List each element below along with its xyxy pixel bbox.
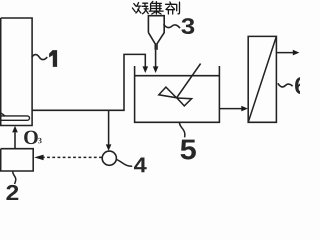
wire: pipe tank 5 to membrane 6 [219,108,241,110]
mixing tank 5 (open top) [135,66,220,122]
arrowhead into box 2 (dashed line) [34,155,43,161]
label 1 [49,50,57,67]
coagulant hopper 3 [148,16,164,50]
kanji 集 (coagulant text char 2) [149,1,163,14]
arrowhead into membrane 6 [241,106,248,112]
arrowhead outlet [293,50,300,56]
label 4 [134,158,147,173]
label 5 [181,140,196,160]
leader tilde for label 3 [164,24,180,28]
sparger plate inside tank 1 [0,116,30,120]
wire: pipe tank1 to mixing tank [32,54,145,110]
leader tilde for label 1 [32,55,47,60]
ozone generator box 2 [1,149,34,171]
label 6 [295,77,307,94]
leader squiggle for label 2 [13,171,16,184]
label 3 [181,18,194,34]
stirrer blade right [177,98,192,106]
liquid level line in tank 5 [135,75,220,77]
wire: dashed control line to box 2 [43,156,102,158]
wire: branch down to pump 4 [108,110,110,145]
label 2 [6,185,18,200]
wire: coagulant feed line into tank 5 [155,50,157,67]
stirrer shaft [177,64,201,98]
wire: treated water outlet [276,52,293,54]
arrowhead up into tank 1 [12,126,18,133]
stirrer blade left [159,87,177,98]
membrane diagonal [248,36,276,122]
kanji 剤 (coagulant text char 3) [166,2,180,14]
sparger left diagonal [0,112,5,116]
arrowhead at pump [106,144,112,150]
O3 label [24,131,38,144]
leader tilde for label 6 [278,83,293,87]
arrowhead coagulant into tank 5 [153,66,159,73]
pump / valve circle 4 [102,151,116,165]
leader curve for label 4 [116,159,132,166]
leader squiggle for label 5 [179,122,184,138]
kanji 凝 (coagulant text char 1) [132,3,148,14]
arrowhead into tank 5 (feed) [143,66,149,73]
membrane module 6 [248,36,276,122]
reaction tank 1 (ozone contact column) [1,18,32,126]
wire: ozone pipe up into tank 1 [14,132,16,148]
